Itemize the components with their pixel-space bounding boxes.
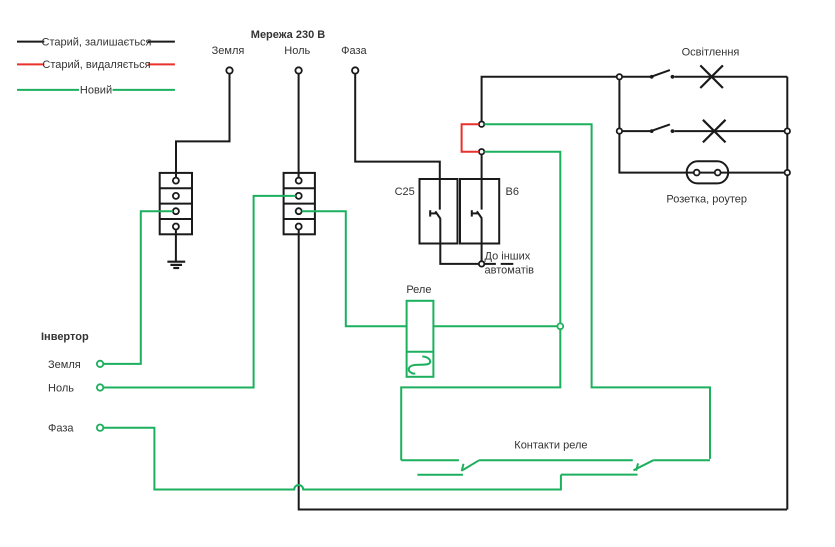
wire: B6 input up to node B xyxy=(481,154,483,209)
switch S1 xyxy=(622,70,787,77)
wire: dashes to other breakers xyxy=(485,263,514,265)
breaker C25 box xyxy=(420,179,458,244)
node C: relay coil / contact feed xyxy=(557,323,563,329)
svg-text:Земля: Земля xyxy=(212,45,245,57)
wire: socket row xyxy=(687,172,785,174)
svg-text:Інвертор: Інвертор xyxy=(41,331,89,343)
terminal block X1 (ground block) xyxy=(160,173,192,234)
relay K1 AC sine symbol xyxy=(409,356,430,373)
wire: inverter Земля to X1 pin3 xyxy=(103,211,173,364)
svg-text:Новий: Новий xyxy=(80,85,112,97)
svg-text:Ноль: Ноль xyxy=(284,45,310,57)
socket XS1 xyxy=(687,161,729,183)
svg-text:Фаза: Фаза xyxy=(48,423,74,435)
terminal block X2 (neutral block) xyxy=(284,173,315,234)
wire: node C down to contact K1.1 xyxy=(401,329,560,460)
svg-text:Реле: Реле xyxy=(406,284,431,296)
wire: lighting left rail xyxy=(619,80,686,173)
wire: mains Земля to terminal block X1 xyxy=(176,74,230,178)
node: lighting rail row2 xyxy=(617,128,622,133)
svg-text:Старий, видаляється: Старий, видаляється xyxy=(42,59,150,71)
terminal: inverter Фаза xyxy=(97,425,103,431)
wire: neutral X2 pin3 to relay coil xyxy=(302,211,407,326)
terminal block X1 pins xyxy=(173,178,179,230)
legend: old-removed red line xyxy=(17,63,175,65)
node B: B6 input xyxy=(479,149,484,154)
breaker C25 contact blade xyxy=(429,210,440,218)
node: lighting rail top xyxy=(617,74,622,79)
lamp E2 xyxy=(703,120,726,143)
svg-text:Старий, залишається: Старий, залишається xyxy=(42,36,152,48)
wire: inverter Ноль to X2 pin2 xyxy=(103,196,295,388)
wire: mains Ноль to terminal block X2 xyxy=(298,74,300,178)
svg-text:Розетка, роутер: Розетка, роутер xyxy=(666,194,747,206)
wire: phase riser above breakers to lighting xyxy=(482,77,617,122)
wire: B6 output down to junction xyxy=(481,218,483,261)
legend: old-stays black line xyxy=(17,41,175,43)
svg-text:B6: B6 xyxy=(506,186,519,198)
terminal: inverter Земля xyxy=(97,361,103,367)
wire: new green from node A to relay contact K1.2 xyxy=(484,124,710,459)
svg-text:Фаза: Фаза xyxy=(341,45,367,57)
node: right rail row3 xyxy=(785,170,790,175)
terminal: inverter Ноль xyxy=(97,384,103,390)
svg-text:До інших: До інших xyxy=(485,251,531,263)
switch S2 xyxy=(622,124,785,131)
svg-text:автоматів: автоматів xyxy=(485,264,535,276)
svg-text:Контакти реле: Контакти реле xyxy=(514,439,587,451)
wire: new green from node B to relay coil node xyxy=(484,152,560,324)
breaker B6 box xyxy=(460,179,499,244)
node A: B6 top feed xyxy=(479,122,484,127)
breaker B6 contact blade xyxy=(471,210,482,218)
wire: old red link node A to node B xyxy=(462,124,479,152)
relay contact K1.1 xyxy=(401,460,633,475)
node: junction to other breakers xyxy=(479,261,484,266)
wire: C25 output to junction xyxy=(440,218,479,264)
relay contact K1.2 xyxy=(561,460,710,474)
svg-text:Ноль: Ноль xyxy=(48,382,74,394)
wire: lighting right rail xyxy=(786,77,788,510)
legend: new green line xyxy=(17,89,175,91)
svg-text:C25: C25 xyxy=(395,186,415,198)
terminal: mains Земля xyxy=(226,67,232,73)
terminal: mains Ноль xyxy=(295,67,301,73)
node: right rail row2 xyxy=(785,128,790,133)
wire: X1 bottom to earth xyxy=(175,230,177,262)
terminal block X2 pins xyxy=(296,178,302,230)
wire: relay coil to node C xyxy=(433,325,557,327)
svg-text:Земля: Земля xyxy=(48,359,81,371)
relay K1 coil box xyxy=(407,301,434,377)
wire: X2 bottom neutral down and across bottom xyxy=(299,230,787,510)
wire: mains Фаза to breaker C25 xyxy=(355,74,440,210)
lamp E1 xyxy=(700,65,723,88)
ground xyxy=(167,262,185,268)
svg-text:Освітлення: Освітлення xyxy=(682,46,740,58)
wire: inverter Фаза to contact K1.2 with hop xyxy=(103,428,561,490)
terminal: mains Фаза xyxy=(352,67,358,73)
svg-text:Мережа 230 В: Мережа 230 В xyxy=(251,29,325,41)
